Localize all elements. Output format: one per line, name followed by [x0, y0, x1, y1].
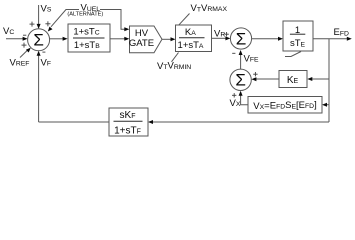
- integrator lower limit mark: [285, 52, 301, 57]
- svg-text:VFE: VFE: [244, 53, 259, 64]
- summing junction S1: [28, 29, 50, 51]
- svg-text:VX: VX: [230, 98, 241, 109]
- wire VS input: [38, 5, 40, 25]
- block HV GATE: [129, 26, 162, 53]
- plus sign VX: [232, 93, 236, 97]
- svg-text:VTVRMAX: VTVRMAX: [191, 3, 228, 14]
- summing junction S3: [230, 69, 251, 90]
- arrow VUEL into summer: [48, 27, 53, 32]
- minus sign VC: [23, 34, 26, 36]
- arrow VFE into S2: [239, 50, 243, 55]
- arrow into KF block: [148, 120, 153, 124]
- wire VUEL to HV gate: [100, 10, 126, 30]
- svg-text:Σ: Σ: [236, 29, 247, 48]
- arrow EFD output: [347, 37, 352, 41]
- block integrator 1/sTE: [283, 21, 313, 51]
- wire VUEL alternate to summer: [51, 10, 79, 27]
- svg-text:GATE: GATE: [129, 38, 154, 49]
- block KE: [279, 71, 307, 88]
- plus sign VS: [30, 22, 35, 27]
- limit line VRMIN: [172, 53, 179, 62]
- svg-text:VREF: VREF: [10, 58, 30, 69]
- arrow VREF into summer: [26, 48, 31, 53]
- wire VREF input: [20, 50, 27, 57]
- svg-text:Σ: Σ: [235, 71, 246, 90]
- arrow into HV gate: [124, 37, 129, 41]
- wire feedback to KE: [311, 78, 329, 80]
- wire feedback vertical: [328, 39, 330, 122]
- arrow VC into summer: [23, 37, 28, 41]
- svg-text:Σ: Σ: [33, 31, 44, 50]
- arrow VUEL into HV gate: [124, 27, 129, 31]
- arrow into KA block: [171, 37, 176, 41]
- wire KE to summer S3: [256, 78, 279, 80]
- svg-text:VTVRMIN: VTVRMIN: [157, 61, 191, 72]
- wire VC input: [6, 38, 23, 40]
- arrow VF into summer: [37, 51, 41, 56]
- block KA/(1+sTA): [176, 25, 212, 52]
- wire KA to summer S2: [212, 37, 227, 39]
- svg-text:VS: VS: [41, 4, 52, 15]
- arrow into lead-lag: [63, 37, 68, 41]
- wire lead-lag to HV gate: [110, 38, 125, 40]
- summing junction S2: [230, 28, 251, 49]
- wire feedback to VX block: [326, 104, 329, 106]
- minus sign VF: [42, 51, 45, 53]
- svg-text:VC: VC: [3, 26, 14, 37]
- plus sign VREF: [22, 43, 27, 48]
- svg-text:VF: VF: [41, 58, 52, 69]
- wire KF output to VF: [39, 121, 109, 123]
- limit line VRMAX: [179, 14, 190, 26]
- svg-text:EFD: EFD: [334, 27, 349, 38]
- arrow into summer S2: [225, 36, 230, 40]
- block stabilizer sKF/(1+sTF): [109, 108, 148, 137]
- minus sign VFE input: [232, 52, 235, 54]
- arrow VS into summer: [37, 24, 41, 29]
- svg-text:HV: HV: [135, 28, 149, 39]
- arrow into summer S3: [251, 77, 256, 81]
- arrow into KE: [307, 77, 312, 81]
- svg-text:VR: VR: [214, 29, 225, 40]
- wire VX to summer S3: [241, 93, 248, 105]
- block VX saturation: [248, 97, 322, 114]
- wire VFE S3 to S2: [240, 55, 242, 70]
- arrow into integrator: [278, 37, 283, 41]
- wire summer to lead-lag: [50, 38, 63, 40]
- plus sign VR: [224, 32, 228, 36]
- plus sign VUEL input: [45, 21, 50, 26]
- wire bottom feedback to KF block: [153, 121, 330, 123]
- wire VF vertical: [38, 55, 40, 122]
- wire S2 to integrator: [252, 38, 279, 40]
- block lead-lag (1+sTC)/(1+sTB): [68, 24, 110, 52]
- wire EFD output: [313, 38, 348, 40]
- plus sign KE input: [253, 72, 257, 76]
- svg-text:(ALTERNATE): (ALTERNATE): [67, 12, 103, 18]
- arrow VX into S3: [239, 91, 243, 96]
- arrow into VX block: [322, 103, 327, 107]
- wire HV gate to KA block: [162, 38, 172, 40]
